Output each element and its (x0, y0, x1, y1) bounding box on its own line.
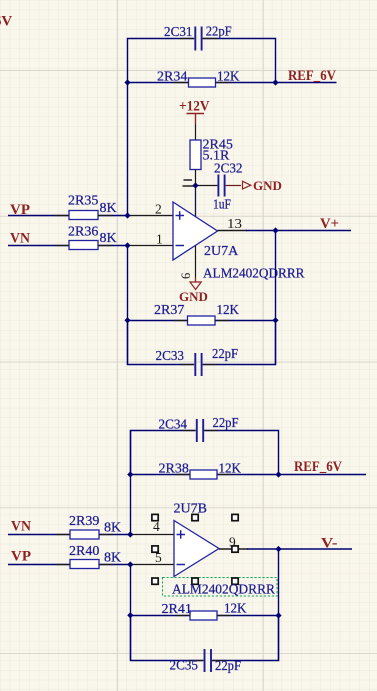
svg-text:2C33: 2C33 (156, 349, 185, 364)
svg-text:2R39: 2R39 (69, 514, 99, 529)
wire feedback right vertical (A) (275, 231, 277, 365)
resistor R35 (68, 194, 117, 220)
svg-text:1: 1 (156, 232, 163, 247)
wire VP input (8, 215, 128, 217)
svg-text:2R35: 2R35 (68, 194, 98, 209)
junction dot output B (275, 546, 281, 552)
wire C33 branch bottom loop (128, 321, 276, 365)
wire VP input B (8, 564, 131, 566)
selection handles around U7B (152, 514, 238, 584)
wire R34 branch (128, 82, 276, 84)
svg-text:8K: 8K (100, 231, 117, 246)
svg-text:2U7A: 2U7A (204, 244, 239, 259)
plus mark B (177, 530, 186, 538)
resistor R45 (190, 138, 233, 186)
junction dot R38 right (275, 471, 281, 477)
selection box value (B) (163, 578, 278, 597)
svg-text:12K: 12K (224, 602, 247, 617)
wire C35 branch bottom loop (131, 616, 279, 661)
svg-text:2C34: 2C34 (159, 418, 188, 433)
minus mark (176, 245, 185, 247)
wire R37 branch (128, 320, 276, 322)
junction dot R37 left (124, 317, 130, 323)
ground GND under op-amp A (179, 277, 208, 304)
svg-text:GND: GND (179, 289, 208, 304)
svg-text:REF_6V: REF_6V (288, 68, 336, 84)
svg-text:2C31: 2C31 (164, 25, 193, 40)
junction dot -in node (124, 242, 130, 248)
junction dot +in B (127, 531, 133, 537)
svg-text:8K: 8K (104, 551, 121, 566)
svg-text:V+: V+ (320, 216, 339, 232)
svg-text:GND: GND (253, 178, 282, 193)
svg-text:2R37: 2R37 (154, 303, 184, 318)
pin stub to +in (130, 215, 174, 217)
svg-text:VN: VN (11, 519, 31, 535)
op-amp U7A triangle (173, 202, 218, 260)
resistor R40 (69, 544, 121, 569)
wire left vertical to +in B (130, 431, 132, 535)
wire power node down to op-amp (195, 186, 197, 218)
svg-text:+12V: +12V (179, 99, 210, 115)
svg-text:2C35: 2C35 (170, 659, 199, 674)
svg-text:2R36: 2R36 (68, 225, 98, 240)
plus mark (176, 211, 185, 219)
svg-text:ALM2402QDRRR: ALM2402QDRRR (172, 583, 276, 598)
no-ERC marks (183, 180, 195, 186)
wire REF_6V stub A (276, 82, 337, 84)
wire C31 branch top loop (128, 39, 276, 216)
svg-text:8K: 8K (104, 521, 121, 536)
wire C34 branch top loop (131, 431, 279, 475)
wire feedback left vertical (B) (130, 565, 132, 661)
junction dot R41 right (275, 612, 281, 618)
junction dot power node (192, 182, 198, 188)
svg-text:22pF: 22pF (215, 659, 241, 674)
junction dot right R34 (272, 79, 278, 85)
junction dot +in node (124, 212, 130, 218)
resistor R38 (159, 462, 242, 480)
svg-text:12K: 12K (217, 303, 240, 318)
svg-text:8K: 8K (100, 201, 117, 216)
svg-text:V-: V- (321, 536, 338, 552)
svg-text:22pF: 22pF (212, 347, 238, 362)
wire VN input (8, 245, 128, 247)
svg-text:2C32: 2C32 (214, 162, 243, 177)
svg-text:ALM2402QDRRR: ALM2402QDRRR (203, 267, 305, 282)
resistor R39 (69, 514, 121, 539)
op-amp U7B triangle (174, 521, 219, 577)
svg-text:REF_6V: REF_6V (294, 459, 342, 475)
capacitor C32 (196, 162, 243, 213)
wire feedback left vertical (A) (127, 246, 129, 365)
pin stub to -in (130, 245, 174, 247)
wire R41 branch (131, 615, 279, 617)
wire REF_6V stub B (279, 474, 367, 476)
output pin 9 (219, 548, 248, 550)
svg-text:2: 2 (155, 202, 162, 217)
junction dot left R34 (124, 79, 130, 85)
junction dot output A (272, 227, 278, 233)
svg-text:2R40: 2R40 (69, 544, 99, 559)
svg-text:VN: VN (10, 231, 30, 247)
svg-text:9: 9 (229, 535, 236, 550)
svg-text:2R41: 2R41 (162, 602, 192, 617)
capacitor C31 (164, 25, 232, 51)
capacitor C35 (170, 649, 242, 674)
wire feedback right vertical (B) (278, 549, 280, 661)
ground GND (right of C32, arrow style) (243, 178, 282, 193)
minus mark B (177, 564, 186, 566)
junction dot -in B (127, 561, 133, 567)
capacitor C33 (156, 347, 239, 376)
junction dot R41 left (127, 612, 133, 618)
power +12V (179, 99, 210, 141)
resistor R37 (154, 303, 239, 325)
svg-text:VP: VP (11, 549, 31, 565)
svg-text:22pF: 22pF (206, 25, 232, 40)
resistor R34 (157, 70, 240, 88)
junction dot R37 right (272, 317, 278, 323)
output pin 13 (218, 230, 248, 232)
resistor R41 (162, 602, 247, 621)
svg-text:2U7B: 2U7B (174, 502, 207, 517)
junction dot R38 left (127, 471, 133, 477)
capacitor C34 (159, 416, 239, 442)
svg-text:6: 6 (179, 273, 193, 279)
wire R38 branch (131, 474, 279, 476)
svg-text:6V: 6V (0, 14, 12, 30)
wire VN input B (8, 534, 131, 536)
pin stubs R34 (55, 83, 231, 616)
svg-text:22pF: 22pF (213, 416, 239, 431)
svg-text:1uF: 1uF (213, 198, 231, 213)
svg-text:13: 13 (227, 216, 242, 231)
resistor R36 (68, 225, 117, 250)
pin 6 stub (195, 246, 197, 278)
